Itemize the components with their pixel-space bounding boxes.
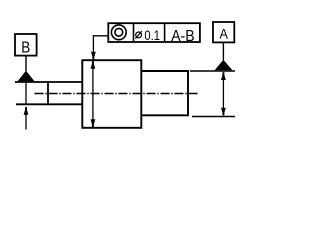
svg-text:B: B (21, 39, 30, 56)
svg-text:A-B: A-B (171, 28, 194, 45)
svg-text:0.1: 0.1 (144, 27, 160, 43)
svg-text:A: A (220, 26, 228, 41)
